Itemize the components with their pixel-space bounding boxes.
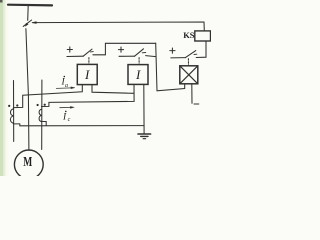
disconnect switch blade	[23, 20, 31, 26]
left green scan band	[0, 0, 6, 176]
top-left corner speck	[0, 0, 3, 3]
current arrow ic	[60, 106, 71, 108]
relay coil box I1	[77, 64, 97, 84]
contact K1 blade tip stop	[90, 51, 93, 53]
relay KS box	[195, 31, 211, 41]
svg-text:KS: KS	[183, 30, 195, 40]
minus terminal	[194, 103, 199, 105]
wire CT2 secondary bottom tap	[41, 122, 46, 126]
switch arrowhead	[25, 23, 28, 26]
contact K1 right lead + riser rail	[93, 43, 156, 55]
ground symbol	[138, 133, 151, 135]
phase B feeder (through switch to motor)	[26, 29, 29, 151]
motor circle	[14, 150, 43, 179]
contact K3 blade tip stop	[194, 53, 197, 55]
plus sign 1	[67, 47, 72, 52]
linkage K1 dashed	[88, 58, 90, 65]
svg-text:M: M	[23, 155, 32, 170]
top wire to KS	[33, 22, 205, 31]
CT2 secondary winding	[39, 109, 41, 121]
current arrow ia	[56, 87, 71, 90]
wire I2 right lead to ground	[143, 84, 145, 133]
busbar	[8, 4, 52, 7]
wire I1 right lead to I2 left	[92, 85, 134, 94]
contact K2 blade	[135, 49, 144, 56]
svg-text:I: I	[135, 67, 141, 82]
contact K3 left lead	[171, 57, 186, 59]
node wire contacts to lamp	[156, 43, 185, 91]
linkage K3 dashed	[187, 59, 189, 66]
relay coil box I2	[128, 65, 148, 85]
wire CT secondary return	[13, 124, 144, 126]
contact K1 blade	[83, 49, 92, 56]
contact K1 left lead	[67, 55, 83, 57]
wire bus to switch	[27, 5, 30, 20]
wire KS bottom to contact K3	[196, 41, 206, 58]
linkage K2 dashed	[138, 58, 140, 65]
svg-text:I: I	[84, 67, 90, 82]
CT1 secondary winding	[10, 109, 13, 123]
wire CT1 secondary top to I1 (ia wire)	[13, 85, 82, 108]
lamp right lead to minus	[191, 84, 193, 104]
CT1 polarity dots	[8, 105, 10, 107]
lamp crossed box HL	[180, 66, 198, 84]
wire CT2 secondary top to I2 (ic wire)	[41, 84, 134, 106]
svg-text:a: a	[65, 83, 68, 89]
phase C feeder	[41, 80, 43, 150]
plus sign 2	[118, 47, 123, 52]
svg-text:c: c	[68, 117, 71, 123]
plus sign 3	[170, 48, 175, 53]
contact K2 blade tip stop	[142, 52, 146, 54]
CT2 polarity dots	[37, 104, 39, 106]
phase A feeder	[13, 81, 15, 142]
contact K3 blade	[185, 51, 195, 58]
contact K2 right lead	[146, 56, 156, 57]
top wire arrowhead	[32, 22, 36, 24]
contact K2 left lead	[119, 55, 135, 57]
